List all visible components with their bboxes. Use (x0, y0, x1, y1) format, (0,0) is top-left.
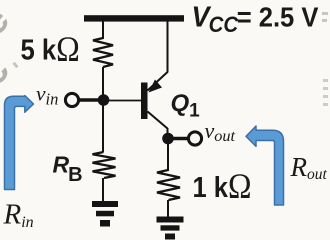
resistor 5 kOhm zigzag (93, 38, 113, 67)
label VCC = 2.5 V (192, 0, 319, 37)
wire: 5k resistor to input node (102, 67, 104, 152)
Rout arrow (blue) (246, 126, 284, 205)
wire: rail to Q1 emitter (167, 21, 169, 73)
transistor Q1 base bar (141, 83, 148, 120)
resistor RB zigzag (93, 152, 116, 178)
wire: 1k resistor to ground (167, 200, 169, 217)
Rin arrow (blue) (5, 96, 34, 190)
label 5 kOhm (21, 30, 80, 69)
ground (right) (157, 217, 184, 240)
svg-text:5 kΩ: 5 kΩ (21, 30, 80, 69)
transistor Q1 emitter lead (148, 72, 168, 91)
wire: vin terminal stub (79, 98, 99, 102)
node: output junction dot (162, 133, 174, 145)
svg-text:1 kΩ: 1 kΩ (193, 167, 252, 206)
label 1 kOhm (193, 167, 252, 206)
wire: rail to 5k resistor (102, 21, 104, 39)
transistor Q1 collector lead (148, 112, 168, 129)
wire: collector to output node (167, 128, 169, 136)
wire: output node to 1k resistor (167, 144, 169, 171)
input terminal vin (open circle) (65, 93, 78, 106)
transistor Q1 emitter arrow (PNP) (149, 80, 163, 93)
output terminal vout (open circle) (188, 132, 201, 145)
wire: base node to Q1 base (103, 100, 141, 102)
resistor 1 kOhm zigzag (157, 170, 180, 200)
wire: output stub (168, 137, 188, 141)
wire: RB to ground (102, 178, 104, 202)
node: base junction dot (98, 94, 110, 106)
ground (left) (92, 201, 118, 227)
VCC supply rail (84, 15, 184, 21)
